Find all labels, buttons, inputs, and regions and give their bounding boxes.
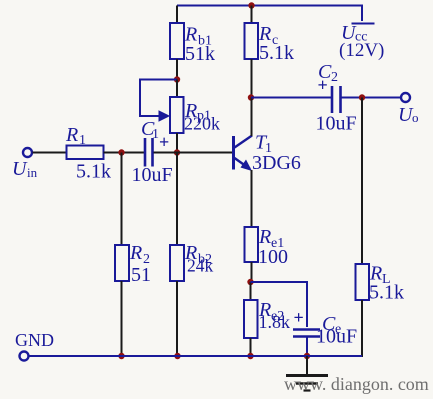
junction: emitter bypass node [247, 279, 253, 285]
ground symbol [286, 356, 328, 391]
wire: RL column upper [361, 98, 363, 266]
terminal Uo [401, 93, 410, 102]
label Rb2 [184, 242, 212, 267]
resistor R2 [115, 245, 129, 281]
label Uin [12, 158, 38, 180]
label T1 [255, 132, 272, 157]
svg-text:5.1k: 5.1k [259, 42, 294, 64]
resistor Rb2 [170, 245, 184, 281]
junction: R1 / R2 node [118, 149, 124, 155]
wire: Re2 to ground rail [250, 338, 252, 356]
wire: Re1 to emitter node [251, 262, 253, 283]
svg-text:3DG6: 3DG6 [252, 152, 301, 174]
wire: top rail to Rc [251, 6, 253, 25]
svg-text:R: R [258, 226, 271, 248]
svg-text:51: 51 [131, 264, 151, 286]
wire: emitter to Re1 [251, 170, 253, 228]
label Re2 [258, 299, 284, 324]
wire: C2 to Uo [342, 97, 402, 99]
capacitor C1 [145, 138, 153, 167]
wire: Vcc top rail with drop to Ucc terminal [177, 6, 362, 22]
svg-text:U: U [12, 158, 28, 180]
wire: emitter node to Re2 [250, 282, 252, 301]
svg-text:+: + [318, 75, 328, 95]
svg-text:220k: 220k [184, 114, 220, 134]
svg-text:(12V): (12V) [339, 40, 384, 61]
svg-text:R: R [65, 124, 78, 146]
svg-text:5.1k: 5.1k [369, 282, 404, 304]
resistor RL [356, 264, 370, 300]
wire: collector node to transistor [251, 98, 253, 137]
junction: R2 / ground rail [118, 353, 124, 359]
wire: Rp1 to base node [176, 133, 178, 153]
svg-text:2: 2 [331, 70, 338, 85]
wire: R1 to C1 [104, 152, 145, 154]
wire: Rc to collector node [251, 59, 253, 98]
svg-text:100: 100 [258, 246, 288, 268]
wire: R2 column [121, 153, 123, 247]
junction: Rb1 / Rp1 wiper node [174, 76, 180, 82]
resistor Rb1 [170, 23, 184, 59]
wire: R2 to ground rail [121, 281, 123, 356]
label Ce [322, 313, 341, 337]
wire: Rb2 to ground rail [176, 281, 178, 356]
terminal GND [20, 352, 29, 361]
svg-text:o: o [412, 110, 419, 125]
svg-text:51k: 51k [185, 43, 215, 65]
label Rb1 [184, 24, 212, 49]
junction: top rail / Rc [248, 2, 254, 8]
label RL [369, 263, 391, 288]
label Rc [258, 23, 278, 48]
resistor Re1 [245, 227, 259, 262]
svg-text:GND: GND [15, 330, 54, 350]
junction: collector node [248, 94, 254, 100]
svg-text:+: + [294, 308, 304, 328]
svg-text:5.1k: 5.1k [76, 161, 111, 183]
label Rp1 [184, 100, 211, 124]
wire: collector node to C2 [251, 97, 331, 99]
transistor T1 [234, 136, 253, 172]
wire: base node down to Rb2 [176, 153, 178, 247]
wire: Rb1 to wiper junction [176, 59, 178, 80]
svg-text:www. diangon. com: www. diangon. com [284, 374, 429, 394]
wire: emitter node to Ce [251, 282, 308, 327]
resistor Re2 [244, 300, 258, 338]
label Uo [398, 104, 419, 126]
svg-text:24k: 24k [187, 256, 214, 276]
potentiometer Rp1 wiper arrow [159, 111, 169, 121]
svg-text:1.8k: 1.8k [259, 312, 291, 332]
wire: junction to Rp1 [176, 80, 178, 99]
label C2 [318, 61, 338, 85]
wire: C1 to base [154, 152, 234, 154]
capacitor C2 [332, 86, 341, 113]
svg-text:10uF: 10uF [316, 113, 357, 135]
svg-text:1: 1 [79, 133, 86, 148]
junction: Rb2 / ground rail [174, 353, 180, 359]
potentiometer Rp1 [170, 97, 184, 133]
label R1 [65, 124, 86, 148]
wire: Ce to ground rail [306, 337, 308, 357]
svg-text:R: R [129, 242, 142, 264]
svg-text:in: in [27, 165, 38, 180]
wire: Rp1 wiper feedback loop [140, 80, 177, 117]
wire: ground rail [29, 355, 362, 357]
junction: output / RL node [359, 94, 365, 100]
wire: top rail to Rb1 [176, 6, 178, 25]
junction: Ce / ground rail [304, 353, 310, 359]
power Ucc (12V) terminal [339, 22, 384, 61]
junction: Re2 / ground rail [247, 353, 253, 359]
capacitor Ce [293, 330, 320, 337]
label R2 [129, 242, 150, 267]
svg-text:+: + [159, 132, 169, 152]
label C1 [141, 118, 159, 142]
svg-text:10uF: 10uF [132, 164, 173, 186]
terminal Uin [23, 148, 32, 157]
wire: Uin to R1 [33, 152, 68, 154]
svg-text:1: 1 [152, 127, 159, 142]
junction: base node [174, 149, 180, 155]
resistor R1 [67, 146, 104, 160]
label Re1 [258, 226, 284, 251]
svg-text:10uF: 10uF [316, 326, 357, 348]
wire: RL to ground rail [361, 300, 363, 357]
resistor Rc [245, 23, 259, 59]
